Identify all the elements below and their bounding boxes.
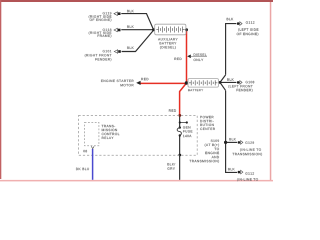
wire trunk lower to S109 and G112 bottom bbox=[226, 91, 237, 173]
diesel only pointer arrow bbox=[187, 55, 191, 59]
label GEN FUSE 140A bbox=[183, 126, 190, 128]
label in-line to (bottom) bbox=[237, 178, 258, 181]
label G119 bbox=[103, 12, 112, 14]
label auxiliary battery bbox=[158, 38, 178, 40]
label transmission control relay bbox=[102, 125, 116, 127]
wire starter motor to battery (red) bbox=[140, 82, 186, 84]
wire fuse tap stub bbox=[180, 122, 187, 124]
border frame bottom bbox=[0, 180, 273, 182]
wire battery fan up diagonal bbox=[220, 75, 226, 83]
relay pin socket notch bbox=[91, 146, 94, 148]
label BLK G129 bbox=[229, 138, 236, 140]
wire fuse output to bottom exit bbox=[179, 136, 181, 180]
fuse GEN FUSE 140A bbox=[177, 128, 181, 136]
label BLK wire3 bbox=[127, 47, 134, 49]
label RED pdc wire bbox=[169, 109, 176, 111]
label BLK/GRY bbox=[167, 163, 175, 165]
wire G101 to auxiliary battery bbox=[122, 30, 154, 51]
wire battery fan down diagonal bbox=[220, 82, 226, 90]
node fuse tap left bbox=[179, 121, 181, 123]
node S109 splice bbox=[224, 141, 227, 144]
node fuse bottom terminal bbox=[179, 134, 181, 136]
node battery right terminal fan bbox=[219, 81, 222, 84]
label RED aux wire bbox=[174, 58, 181, 60]
wire fuse feed inside PDC bbox=[179, 115, 181, 127]
label G129 bbox=[245, 142, 254, 144]
connector G112 bottom (dot+arrow) bbox=[238, 170, 243, 174]
label BLK G112 top bbox=[227, 18, 234, 20]
label power distribution center bbox=[200, 116, 213, 118]
label pin 08 bbox=[83, 150, 87, 152]
label G118 bbox=[103, 29, 112, 31]
wire G118 to auxiliary battery bbox=[121, 29, 153, 31]
label BLK G112 bottom bbox=[228, 168, 235, 170]
node aux battery right terminal bbox=[185, 28, 188, 31]
label BLK wire1 bbox=[127, 10, 134, 12]
auxiliary battery symbol bbox=[155, 24, 186, 35]
ground connector G118 (arrow+dot) bbox=[114, 28, 121, 32]
label DK BLU bbox=[76, 168, 89, 170]
label in-line to transmission bbox=[240, 148, 261, 151]
node aux battery left terminal bbox=[152, 28, 155, 31]
transmission control relay dashed box bbox=[85, 122, 99, 145]
engine starter motor arrow bbox=[136, 81, 140, 85]
label DIESEL ONLY bbox=[194, 54, 207, 56]
wire aux battery down feed (red) bbox=[186, 31, 188, 84]
node PDC top entry bbox=[178, 114, 181, 117]
connector G112 top (dot+arrow) bbox=[237, 22, 242, 26]
node PDC bottom exit bbox=[178, 154, 181, 157]
battery symbol bbox=[188, 79, 218, 88]
node fuse tap right bbox=[186, 121, 188, 123]
connector G108 (dot+arrow) bbox=[237, 81, 242, 85]
wire trunk upper to G112 top bbox=[226, 24, 237, 75]
node starter/battery junction bbox=[185, 81, 188, 84]
label S109 splice block bbox=[211, 140, 219, 142]
wire DK BLU from relay pin 08 bbox=[92, 149, 94, 180]
label G112 top bbox=[246, 21, 255, 23]
diesel only leader line bbox=[190, 55, 207, 57]
border frame right bbox=[270, 2, 272, 181]
border frame top bbox=[0, 0, 273, 2]
wire G119 to auxiliary battery bbox=[121, 14, 153, 30]
wire battery to G108 bbox=[220, 81, 236, 83]
label BLK G108 bbox=[227, 78, 234, 80]
wire battery to PDC fuse (red) bbox=[180, 83, 187, 115]
label RED starter wire bbox=[141, 78, 148, 80]
label engine starter motor bbox=[101, 80, 133, 82]
border frame left bbox=[0, 0, 1, 179]
label left front fender bbox=[229, 85, 253, 88]
label BLK wire2 bbox=[127, 26, 134, 28]
wire S109 branch to G129 bbox=[226, 141, 237, 143]
label G108 bbox=[246, 81, 255, 83]
connector G129 (dot+arrow) bbox=[238, 141, 243, 145]
label BATTERY bbox=[188, 89, 203, 91]
node fuse top terminal bbox=[179, 126, 181, 128]
label G101 bbox=[103, 50, 112, 52]
power distribution center dashed box bbox=[79, 116, 198, 156]
label left side of engine bbox=[238, 28, 258, 31]
ground connector G119 (arrow+dot) bbox=[114, 12, 121, 16]
ground connector G101 (arrow+dot) bbox=[114, 50, 120, 54]
label G112 bottom bbox=[245, 172, 254, 174]
